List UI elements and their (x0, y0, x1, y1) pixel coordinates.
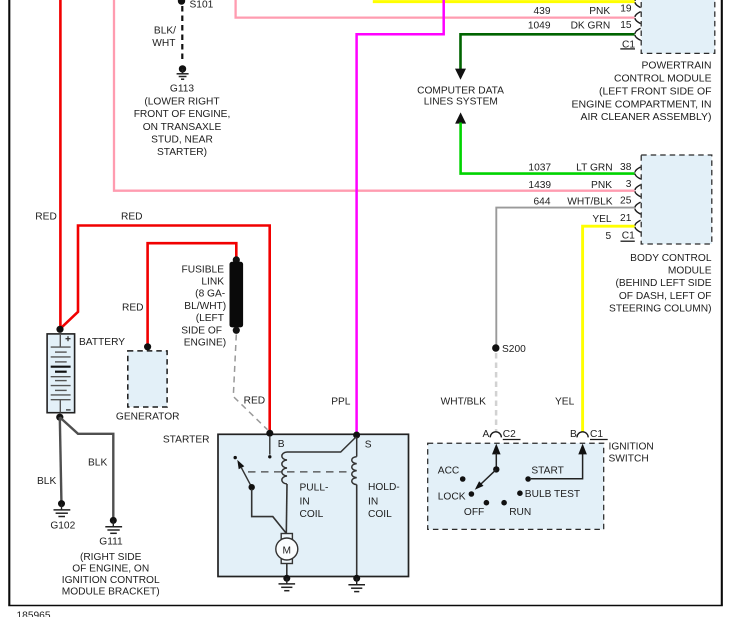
svg-text:RED: RED (35, 211, 57, 222)
wire RED dashed fusible link to starter B (233, 335, 267, 430)
svg-text:WHT/BLK: WHT/BLK (441, 397, 486, 408)
svg-text:5: 5 (606, 231, 612, 242)
svg-text:B: B (570, 429, 577, 440)
PCM pin 15 (620, 20, 640, 40)
BCM pin 38 (620, 162, 641, 179)
svg-text:15: 15 (620, 20, 632, 31)
svg-text:BATTERY: BATTERY (79, 337, 125, 348)
svg-text:IGNITION: IGNITION (609, 441, 654, 452)
starter terminal B (266, 430, 284, 459)
svg-text:ENGINE): ENGINE) (184, 338, 226, 349)
svg-text:185965: 185965 (17, 611, 51, 617)
svg-text:PNK: PNK (591, 180, 612, 191)
fusible link F1 (230, 256, 244, 334)
ignition switch SW1 box (428, 441, 654, 529)
starter terminal S (353, 432, 372, 451)
svg-text:STEERING COLUMN): STEERING COLUMN) (609, 304, 711, 315)
svg-text:SWITCH: SWITCH (609, 453, 649, 464)
starter mechanical linkage (dashed) (248, 471, 350, 473)
svg-text:SIDE OF: SIDE OF (181, 325, 222, 336)
svg-text:IN: IN (368, 496, 378, 507)
svg-text:1049: 1049 (528, 20, 551, 31)
svg-text:(RIGHT SIDE: (RIGHT SIDE (80, 552, 142, 563)
splice S200 (492, 344, 526, 355)
svg-text:MODULE: MODULE (668, 266, 712, 277)
svg-text:C1: C1 (590, 429, 603, 440)
svg-text:G102: G102 (50, 520, 75, 531)
svg-text:COMPUTER DATA: COMPUTER DATA (417, 85, 504, 96)
svg-text:OF DASH, LEFT OF: OF DASH, LEFT OF (619, 291, 712, 302)
starter motor M (276, 534, 298, 577)
svg-text:(LOWER RIGHT: (LOWER RIGHT (144, 96, 219, 107)
svg-text:G113: G113 (170, 83, 194, 94)
svg-text:LOCK: LOCK (438, 492, 466, 503)
PCM pin 19 (620, 3, 640, 23)
battery BT1 (47, 326, 125, 413)
wire 439 PNK to PCM pin 19 (236, 0, 635, 18)
BCM label text (609, 253, 712, 315)
svg-text:YEL: YEL (555, 397, 575, 408)
svg-text:RUN: RUN (509, 507, 531, 518)
PCM connector C1 label (620, 39, 635, 50)
svg-text:COIL: COIL (300, 509, 324, 520)
svg-text:(LEFT FRONT SIDE OF: (LEFT FRONT SIDE OF (599, 86, 712, 97)
svg-text:1037: 1037 (528, 163, 551, 174)
ignition switch wiper (pin A side) (475, 444, 501, 490)
svg-text:S101: S101 (190, 0, 214, 10)
svg-text:S: S (365, 440, 372, 451)
pull-in coil L1 (282, 437, 356, 534)
wire 1049 DK GRN to PCM pin 15 (455, 20, 635, 80)
svg-text:LINK: LINK (201, 277, 224, 288)
svg-text:WHT/BLK: WHT/BLK (567, 196, 612, 207)
svg-text:GENERATOR: GENERATOR (116, 411, 180, 422)
svg-text:IGNITION CONTROL: IGNITION CONTROL (62, 575, 160, 586)
svg-text:G111: G111 (99, 536, 123, 547)
svg-text:FRONT OF ENGINE,: FRONT OF ENGINE, (134, 109, 231, 120)
svg-text:LT GRN: LT GRN (576, 163, 612, 174)
BCM connector C1 pin 5 label (606, 231, 636, 242)
svg-text:DK GRN: DK GRN (571, 20, 611, 31)
ignition connector C2 pin A (483, 429, 521, 440)
wire BLK battery negative to G111 (60, 417, 114, 517)
svg-text:CONTROL MODULE: CONTROL MODULE (614, 74, 712, 85)
wire PPL to starter S terminal (331, 0, 444, 434)
svg-text:RED: RED (121, 211, 143, 222)
wire RED generator to fusible link (122, 243, 236, 345)
svg-text:RED: RED (244, 396, 266, 407)
svg-text:S200: S200 (502, 344, 526, 355)
sheet number 185965 (17, 611, 51, 617)
svg-text:PULL-: PULL- (300, 483, 329, 494)
svg-text:RED: RED (122, 302, 144, 313)
ignition switch position contacts and labels (438, 466, 580, 518)
wire BLK battery negative to G102 (37, 414, 63, 501)
svg-text:OF ENGINE, ON: OF ENGINE, ON (72, 564, 149, 575)
ground (starter motor) (279, 575, 296, 591)
ignition connector C1 pin B (570, 429, 608, 440)
svg-text:(BEHIND LEFT SIDE: (BEHIND LEFT SIDE (615, 278, 711, 289)
wire 644 WHT/BLK to BCM pin 25 (496, 196, 634, 344)
body control module U2 (connector box) (641, 155, 712, 244)
G113 location text (134, 96, 231, 158)
BCM pin 25 (620, 196, 641, 215)
svg-text:COIL: COIL (368, 509, 392, 520)
PCM label text (572, 61, 712, 124)
PCM pin 21 (yellow, top) (635, 0, 641, 8)
svg-text:439: 439 (534, 6, 551, 17)
svg-text:STARTER: STARTER (163, 434, 210, 445)
wire RED from battery positive (top feed) (35, 0, 60, 327)
BCM pin 3 (626, 179, 641, 197)
wire YEL from BCM pin 21 to ignition switch pin B (555, 226, 635, 431)
svg-text:WHT: WHT (152, 38, 175, 49)
wire RED battery to starter B terminal (60, 211, 270, 432)
svg-text:A: A (483, 429, 490, 440)
svg-text:FUSIBLE: FUSIBLE (182, 264, 225, 275)
generator G1 (116, 343, 180, 422)
svg-text:PPL: PPL (331, 397, 351, 408)
svg-text:B: B (278, 439, 285, 450)
svg-text:ENGINE COMPARTMENT, IN: ENGINE COMPARTMENT, IN (572, 99, 712, 110)
starter solenoid/motor box M1 (163, 434, 409, 576)
svg-text:1439: 1439 (528, 180, 551, 191)
svg-text:AIR CLEANER ASSEMBLY): AIR CLEANER ASSEMBLY) (581, 112, 712, 123)
svg-text:BL/WHT): BL/WHT) (184, 301, 226, 312)
svg-text:MODULE BRACKET): MODULE BRACKET) (62, 587, 160, 598)
starter solenoid contact switch (234, 456, 287, 533)
node: COMPUTER DATA LINES SYSTEM (417, 85, 504, 107)
ground G111 (99, 517, 123, 548)
svg-text:(8 GA-: (8 GA- (195, 289, 225, 300)
wire WHT/BLK dashed from S200 to ignition switch pin A (441, 353, 497, 432)
fusible link label text (181, 264, 226, 348)
svg-text:HOLD-: HOLD- (368, 482, 400, 493)
svg-text:BLK/: BLK/ (154, 26, 176, 37)
svg-text:(LEFT: (LEFT (196, 313, 224, 324)
ignition switch START contact line to pin B (531, 444, 587, 479)
wire 1439 PNK to BCM pin 3 (114, 0, 635, 191)
svg-text:ACC: ACC (438, 466, 460, 477)
svg-text:IN: IN (300, 496, 310, 507)
svg-text:POWERTRAIN: POWERTRAIN (642, 61, 712, 72)
hold-in coil L2 (352, 437, 400, 577)
svg-text:C1: C1 (622, 231, 635, 242)
svg-text:STUD, NEAR: STUD, NEAR (151, 134, 213, 145)
svg-text:644: 644 (534, 196, 551, 207)
svg-text:BULB TEST: BULB TEST (525, 489, 580, 500)
svg-text:38: 38 (620, 162, 632, 173)
BCM pin 21 (592, 213, 640, 232)
ground G102 (50, 500, 75, 531)
G111 location text (62, 552, 160, 598)
svg-text:25: 25 (620, 196, 632, 207)
svg-text:BLK: BLK (37, 476, 56, 487)
svg-text:19: 19 (620, 3, 632, 14)
svg-text:YEL: YEL (592, 214, 612, 225)
powertrain control module U1 (connector box) (641, 0, 715, 53)
ground (hold-in coil) (348, 575, 365, 592)
splice S101 (178, 0, 214, 10)
svg-text:PNK: PNK (589, 6, 610, 17)
svg-text:STARTER): STARTER) (157, 147, 207, 158)
svg-text:LINES SYSTEM: LINES SYSTEM (424, 96, 498, 107)
svg-text:ON TRANSAXLE: ON TRANSAXLE (143, 122, 222, 133)
svg-text:BLK: BLK (88, 458, 107, 469)
svg-text:START: START (531, 466, 563, 477)
wire YEL to PCM pin 21 (373, 0, 635, 3)
wire BLK/WHT dashed S101 to G113 (152, 6, 182, 63)
ground G113 (170, 65, 194, 94)
wire 1037 LT GRN to BCM pin 38 (455, 112, 634, 173)
svg-text:21: 21 (620, 213, 632, 224)
svg-text:BODY CONTROL: BODY CONTROL (630, 253, 712, 264)
svg-text:M: M (283, 546, 292, 557)
svg-text:C2: C2 (503, 429, 516, 440)
svg-text:OFF: OFF (464, 507, 484, 518)
svg-text:3: 3 (626, 179, 632, 190)
